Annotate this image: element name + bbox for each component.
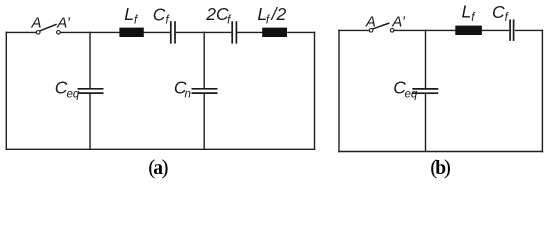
wire: circuit (a) Cn branch lower (203, 93, 205, 149)
wire: circuit (b) left edge (338, 30, 340, 153)
svg-text:f: f (266, 14, 271, 26)
svg-text:Ceq: Ceq (393, 77, 418, 100)
svg-text:A’: A’ (56, 15, 70, 32)
svg-text:Cn: Cn (174, 77, 191, 100)
capacitor Cf (b): left plate (509, 19, 511, 41)
svg-text:A’: A’ (391, 14, 405, 31)
wire: circuit (a) top, switch to inductor Lf (60, 31, 120, 33)
caption (a) (148, 155, 168, 179)
switch A-A' (b): right contact circle (390, 29, 394, 33)
svg-text:Ceq: Ceq (55, 77, 80, 100)
switch A-A' (b): blade (373, 23, 390, 29)
svg-text:/2: /2 (271, 4, 287, 24)
wire: circuit (b) Ceq branch upper (425, 30, 427, 89)
svg-text:): ) (444, 155, 451, 179)
capacitor Cf (a): right plate (174, 21, 176, 43)
wire: circuit (b) top, left segment to switch (338, 29, 369, 31)
capacitor 2Cf (a): left plate (231, 21, 233, 43)
wire: circuit (a) top, inductor Lf to capacitor Cf (143, 31, 170, 33)
capacitor Cn (a): bottom plate (192, 92, 218, 94)
wire: circuit (b) Ceq branch lower (425, 94, 427, 152)
wire: circuit (a) bottom (6, 148, 316, 150)
capacitor Ceq (b): bottom plate (412, 92, 438, 94)
capacitor Ceq (a): top plate (78, 88, 104, 90)
wire: circuit (b) top, inductor Lf to capacitor Cf (481, 29, 509, 31)
switch A-A' (b): left contact circle (369, 29, 373, 33)
wire: circuit (b) right edge (541, 30, 543, 153)
svg-text:): ) (161, 155, 168, 179)
wire: circuit (a) Ceq branch lower (89, 93, 91, 149)
inductor Lf (a) body (119, 28, 143, 37)
capacitor 2Cf (a): right plate (235, 21, 237, 43)
svg-text:2Cf: 2Cf (205, 4, 232, 26)
label Lf/2 (a) (257, 4, 286, 26)
wire: circuit (a) top, capacitor 2Cf to inductor Lf/2 (237, 31, 263, 33)
capacitor Cn (a): top plate (192, 88, 218, 90)
capacitor Cf (a): left plate (170, 21, 172, 43)
wire: circuit (a) right edge (314, 32, 316, 150)
wire: circuit (a) top, capacitor Cf to capacitor 2Cf (node with Cn branch) (176, 31, 232, 33)
svg-text:Lf: Lf (462, 2, 477, 24)
switch A-A' (a): right contact circle (57, 31, 61, 35)
wire: circuit (a) left edge (5, 32, 7, 150)
inductor Lf/2 (a) body (262, 28, 287, 37)
caption (b) (430, 155, 451, 179)
switch A-A' (a): left contact circle (36, 31, 40, 35)
svg-text:Cf: Cf (492, 2, 510, 24)
wire: circuit (a) top, left segment to switch (6, 31, 37, 33)
wire: circuit (b) top, capacitor Cf to right corner (515, 29, 543, 31)
wire: circuit (a) Cn branch upper (203, 32, 205, 89)
svg-text:A: A (31, 15, 42, 32)
wire: circuit (a) Ceq branch upper (89, 32, 91, 89)
inductor Lf (b) body (455, 26, 482, 35)
svg-text:Cf: Cf (153, 4, 171, 26)
wire: circuit (a) top, inductor Lf/2 to right corner (287, 31, 315, 33)
svg-text:Lf: Lf (124, 4, 139, 26)
wire: circuit (b) bottom (338, 151, 543, 153)
capacitor Ceq (b): top plate (412, 88, 438, 90)
switch A-A' (a): blade (40, 24, 57, 31)
capacitor Cf (b): right plate (513, 19, 515, 41)
svg-text:A: A (365, 14, 376, 31)
wire: circuit (b) top, switch to inductor Lf (node with Ceq branch) (394, 29, 456, 31)
capacitor Ceq (a): bottom plate (78, 92, 104, 94)
